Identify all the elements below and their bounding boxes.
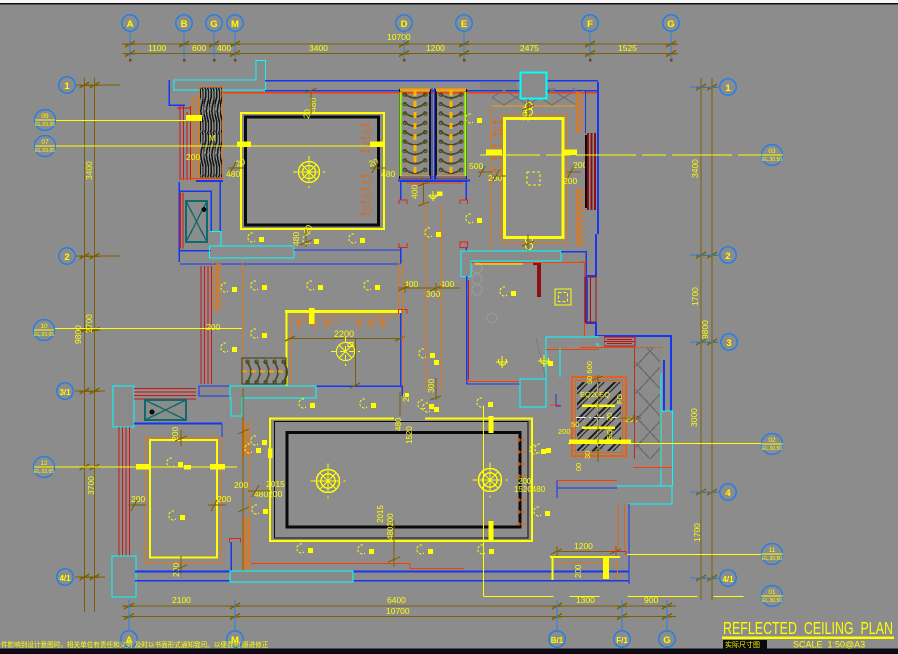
blue sill line (134, 423, 222, 425)
svg-text:EL.30.50: EL.30.50 (762, 157, 782, 163)
access panel hall inner (559, 293, 568, 302)
balcony blue corner (628, 504, 630, 584)
panel1 green edge (400, 92, 402, 176)
bath-balcony orange line (557, 480, 617, 482)
svg-text:1: 1 (64, 81, 70, 92)
svg-text:20: 20 (605, 413, 614, 421)
grid bubble D (396, 15, 412, 31)
right bubble connector 3 (690, 341, 719, 343)
panel1 center dashes (414, 90, 417, 178)
dim stub left living (228, 162, 244, 173)
corridor blue double below panels (400, 177, 467, 181)
dim line left a (84, 78, 86, 612)
access panel hall (555, 289, 571, 305)
row bubble 4/1 right (720, 570, 736, 586)
svg-text:M: M (231, 19, 239, 30)
cabinet orange shelf (556, 564, 618, 581)
leader 09 block (186, 115, 202, 120)
corridor blue line under soffit (180, 263, 401, 265)
svg-text:2: 2 (725, 251, 730, 262)
leader 01 horizontal (484, 596, 762, 598)
leader 07 block2 (370, 142, 384, 148)
dim line right b (711, 78, 713, 600)
dim stub 500 (478, 166, 506, 181)
dim stub right living (370, 162, 386, 173)
svg-text:R/A: R/A (363, 206, 373, 212)
door swing diagonal (536, 338, 546, 380)
hall step red edge (546, 349, 599, 351)
svg-text:50 600: 50 600 (585, 361, 594, 384)
grid bubble G right (663, 15, 679, 31)
red lintel lines (134, 389, 196, 400)
dim 400 vertical corridor (418, 181, 429, 206)
dim line right a (700, 78, 702, 600)
yellow dot foyer (405, 393, 409, 397)
elev bubble 11 (761, 544, 783, 565)
panel1 orange caps (400, 89, 430, 92)
bottom chain line 2 (122, 616, 676, 618)
svg-text:D: D (401, 19, 408, 30)
hall cyan top bar (461, 251, 561, 277)
column cyan box mid-left (113, 386, 134, 427)
bottom chain line 1 (122, 605, 676, 607)
balcony red line (633, 467, 672, 469)
right bubble connector 4 (690, 491, 719, 493)
bottom cyan soffit bar (230, 571, 353, 582)
svg-text:07: 07 (41, 139, 49, 146)
svg-text:2015: 2015 (266, 479, 285, 489)
dining yellow top edge (285, 310, 401, 313)
svg-text:400: 400 (410, 185, 420, 199)
hall red corner (550, 404, 560, 406)
svg-text:G: G (663, 635, 670, 646)
orange verticals hall left (399, 203, 442, 392)
bottom black strip (0, 649, 898, 654)
wall top blue outer line (265, 80, 598, 82)
dim chain line 2 (122, 53, 678, 55)
svg-text:3000: 3000 (689, 408, 699, 427)
elev bubble 12 (34, 457, 55, 478)
window right mid (585, 277, 596, 322)
hall blue step (556, 394, 561, 406)
svg-text:S/A: S/A (375, 318, 384, 324)
pillar blue edge (230, 542, 232, 573)
bed2 200 texts (131, 427, 231, 577)
wall top inner orange line (220, 92, 598, 94)
balcony door frame orange (618, 504, 625, 551)
panel1 frame (400, 90, 430, 178)
dim 1200 balcony (551, 546, 621, 557)
bath-balcony wall blue (557, 480, 617, 498)
window black bar right (585, 135, 587, 208)
dining SA labels (303, 318, 384, 324)
svg-text:2700: 2700 (84, 314, 94, 333)
frame top white line (0, 0, 898, 3)
blue sill step (221, 424, 223, 438)
orange long line corridor (242, 263, 244, 465)
svg-text:E: E (461, 19, 467, 30)
svg-text:1700: 1700 (692, 523, 702, 542)
orange drop line bedroom1 (490, 106, 492, 260)
title underline (722, 637, 894, 640)
row bubble 4 right (720, 484, 736, 500)
hall dim texts 400 300 (404, 185, 454, 393)
bath orange outer rect (572, 377, 626, 456)
grid bubble G (206, 15, 222, 31)
leader 11 (627, 554, 761, 556)
wall top blue inner line (265, 90, 598, 92)
elev bubble 10 (34, 320, 55, 341)
svg-text:实际尺寸图: 实际尺寸图 (725, 640, 760, 649)
cyan soffit top-left (174, 61, 266, 91)
X hatch column border (635, 347, 660, 459)
row bubble 3/1 left (57, 383, 73, 399)
elev bubble 03 (761, 145, 783, 166)
grid bubble B (176, 15, 192, 31)
dining orange inner left (290, 316, 292, 386)
grid bubble F (582, 15, 598, 31)
svg-text:2: 2 (64, 252, 69, 263)
cyan corner notch (595, 344, 598, 347)
svg-text:2100: 2100 (172, 595, 191, 605)
svg-text:S/A: S/A (331, 318, 340, 324)
right bubble connector 2 (690, 254, 719, 256)
svg-text:B: B (181, 19, 188, 30)
svg-text:EQ20EQ: EQ20EQ (580, 390, 610, 399)
hall step cyan inner (559, 349, 561, 377)
grid bubble A (122, 15, 138, 31)
svg-text:R/A: R/A (494, 127, 504, 133)
hall red top line (471, 262, 586, 264)
S coil symbol top (526, 103, 533, 116)
balcony cyan step (617, 486, 672, 504)
svg-text:R/A: R/A (363, 180, 373, 186)
blue line below panels (398, 180, 470, 182)
dining orange inner top (291, 315, 400, 317)
leader 03 block1 (486, 150, 502, 156)
ceiling rect black living (246, 117, 379, 225)
elevator shaft blue outline (179, 182, 220, 262)
svg-text:02: 02 (768, 437, 776, 444)
dim chain line 1 (122, 43, 678, 45)
svg-text:11: 11 (769, 547, 776, 554)
svg-text:G: G (667, 19, 674, 30)
master fan 1 (310, 463, 345, 498)
elevator red doors (180, 193, 183, 249)
window mullions right dark red (588, 133, 595, 210)
svg-text:10700: 10700 (386, 606, 410, 616)
svg-text:200: 200 (206, 322, 220, 332)
elevator door X box (186, 201, 207, 242)
svg-text:200: 200 (574, 564, 583, 578)
dim 480 20 top living (186, 98, 395, 246)
leader 12 (55, 466, 237, 468)
door X box teal (145, 400, 186, 420)
svg-text:REFLECTED CEILING PLAN: REFLECTED CEILING PLAN (723, 618, 893, 638)
bath dim horiz (617, 414, 641, 423)
texts 500 200 bedroom (469, 160, 587, 186)
red studs bottom-left (119, 427, 130, 557)
pillar comb lower (242, 518, 251, 570)
dim tick bedroom bottom (522, 234, 534, 252)
dim stub top living (305, 88, 317, 114)
bottom wall blue second (135, 580, 629, 582)
wall band gray top (170, 82, 598, 92)
pillar comb upper (242, 423, 251, 456)
svg-text:09: 09 (41, 113, 49, 120)
cyan skylight box (521, 73, 547, 99)
bath white centerlines (576, 383, 620, 448)
elevator dot (202, 207, 207, 212)
svg-text:200: 200 (131, 494, 145, 504)
title sub black box (723, 640, 767, 649)
panel2 green edge (465, 92, 467, 176)
leader 01 vertical (483, 406, 485, 596)
wavy panel orange borders (200, 87, 223, 178)
right bubble connector 1 (690, 86, 719, 88)
hall orange bottom line (466, 381, 520, 383)
svg-text:A: A (127, 19, 134, 30)
yellow stub corridor (475, 263, 523, 265)
svg-text:EQ: EQ (605, 429, 614, 440)
frame top black line (0, 3, 898, 5)
svg-text:EL.30.50: EL.30.50 (762, 556, 782, 562)
svg-text:3400: 3400 (309, 43, 328, 53)
master left edge block (268, 449, 273, 459)
bottom bubble F/1 (614, 631, 630, 647)
dim tick bedroom top (522, 99, 534, 117)
svg-text:6400: 6400 (387, 595, 406, 605)
leader 10 (55, 328, 242, 330)
blue inner frame above window (585, 91, 587, 133)
leader 02 (568, 443, 761, 445)
svg-text:2200: 2200 (334, 329, 354, 339)
svg-text:EL.30.50: EL.30.50 (762, 598, 782, 604)
svg-text:4/1: 4/1 (59, 574, 71, 583)
svg-text:F/1: F/1 (616, 636, 628, 645)
elev bubble 01 (761, 586, 783, 607)
cabinet circles (472, 263, 482, 295)
bottom bubble A (121, 631, 137, 647)
leader 01 block2 (489, 521, 494, 541)
svg-text:2475: 2475 (520, 43, 539, 53)
closet X band right of D (492, 88, 575, 106)
svg-text:3/1: 3/1 (59, 388, 71, 397)
svg-text:B/1: B/1 (551, 636, 564, 645)
door bar dark red hall (537, 263, 541, 297)
elevator cyan corner (210, 232, 221, 247)
bath yellow bar 2 (582, 427, 615, 430)
bed2 yellow rect (150, 440, 217, 558)
leader 07 block1 (237, 142, 251, 148)
svg-text:SCALE 1:50@A3: SCALE 1:50@A3 (793, 640, 865, 650)
wavy panel bottom blue (196, 180, 223, 182)
panel2 frame (436, 90, 466, 178)
foyer red studs (201, 266, 212, 384)
left bubble row ticks (75, 84, 120, 86)
bottom wall blue main (135, 571, 629, 573)
cyan soffit below dining (230, 386, 316, 416)
red edge left of xhatch (634, 347, 636, 459)
bath diagonal hatch (577, 382, 621, 451)
hall bottom blue (466, 383, 520, 385)
bath dim vert (592, 375, 603, 462)
blue vert right of xhatch (663, 360, 665, 411)
svg-text:20: 20 (402, 393, 411, 402)
right wall blue upper (597, 82, 599, 234)
elev bubble 07 (35, 136, 56, 157)
red brackets corridor (399, 200, 468, 248)
fan living (293, 156, 325, 188)
cabinet yellow block (603, 558, 609, 579)
S coil symbol bottom (526, 237, 533, 250)
svg-text:FD: FD (615, 393, 624, 404)
arcs frame (242, 358, 286, 384)
svg-text:480: 480 (226, 169, 240, 179)
elevator X (186, 201, 207, 242)
red wall studs left (180, 106, 191, 180)
hall blue left vertical (466, 276, 468, 384)
svg-text:1700: 1700 (690, 287, 700, 306)
row bubble 3 right (721, 334, 737, 350)
panel2 center dashes (450, 90, 453, 178)
horizontal window inner lines (604, 340, 635, 344)
panel1 garland swags (403, 93, 427, 173)
door dot (150, 410, 155, 415)
leader 07 (56, 145, 384, 147)
elev bubble 09 (35, 110, 56, 131)
window right mid inner (590, 277, 592, 322)
bed2 orange rect (145, 438, 222, 563)
svg-text:3400: 3400 (690, 159, 700, 178)
master black rect thin (275, 422, 529, 539)
dining blue right edge (316, 313, 402, 396)
center dim vert line (238, 388, 249, 571)
row bubble 2 right (720, 247, 736, 263)
panel2 orange caps (436, 89, 466, 92)
leader 12 block1 (136, 464, 151, 470)
row bubble 4/1 left (57, 569, 73, 585)
cyan bracket right (661, 373, 673, 486)
arcs orange mid line (242, 371, 286, 373)
corridor blue stubs (401, 181, 467, 264)
cabinet yellow top (550, 556, 620, 558)
svg-text:S/A: S/A (363, 129, 372, 135)
RA arrows bedroom left (492, 120, 501, 172)
dining fan (331, 337, 360, 366)
blue box left of soffit (199, 386, 230, 396)
master texts dims (234, 477, 546, 540)
svg-text:200: 200 (558, 427, 571, 436)
bath yellow bar 1 (582, 405, 615, 408)
corridor red line below panels (406, 182, 463, 184)
svg-text:480: 480 (394, 417, 403, 431)
comb hatch foyer wall (212, 263, 221, 311)
row bubble 2 left (59, 248, 75, 264)
X hatch column right of bath (635, 347, 660, 459)
ceiling rect yellow bedroom1 (505, 119, 564, 238)
corridor bottom red stepped line (251, 564, 464, 569)
horizontal window top of bath (604, 337, 635, 346)
svg-text:600: 600 (192, 43, 206, 53)
window right mid black (586, 279, 588, 320)
dim line left b (94, 78, 96, 612)
svg-text:30: 30 (583, 451, 592, 459)
ticks chain2 (125, 51, 676, 57)
grid stems blue (130, 31, 671, 60)
fixture crosses hall (428, 191, 550, 368)
red wall top ticks (177, 107, 191, 109)
bottom bubble B/1 (549, 631, 565, 647)
circle fixture hall (487, 313, 497, 323)
svg-text:200: 200 (234, 480, 248, 490)
row bubble 1 right (720, 79, 736, 95)
master black rect thick (287, 433, 520, 528)
bath orange inner rect (576, 381, 623, 453)
svg-text:3: 3 (726, 338, 731, 349)
orange edge right of xhatch (660, 411, 662, 470)
svg-text:480: 480 (291, 232, 301, 246)
svg-text:500: 500 (469, 161, 483, 171)
master fan 2 (472, 462, 507, 497)
svg-text:1200: 1200 (426, 43, 445, 53)
svg-text:4/1: 4/1 (722, 575, 734, 584)
svg-text:03: 03 (768, 148, 776, 155)
dim stub bottom living (300, 229, 312, 247)
dim 300 vertical line (430, 378, 441, 400)
svg-text:件影响到设计意图时。相关单位有责任和义务 及时以书面形式通知: 件影响到设计意图时。相关单位有责任和义务 及时以书面形式通知我司。以便我司 跟进… (1, 640, 269, 649)
downlight foyer south (423, 403, 439, 412)
access square bedroom1 (527, 172, 540, 185)
right bubble connector 4/1 (690, 577, 719, 579)
comb hatch right wall upper (575, 91, 584, 133)
pillar red bracket (230, 539, 241, 543)
svg-text:12: 12 (40, 460, 48, 467)
svg-text:1525: 1525 (618, 43, 637, 53)
svg-text:01: 01 (768, 589, 776, 596)
cabinet red bracket (610, 552, 626, 556)
wood grain wavy panel (200, 87, 222, 178)
svg-text:4: 4 (725, 488, 731, 499)
wavy panel bottom red (181, 178, 223, 180)
svg-text:50: 50 (571, 420, 579, 429)
svg-text:300: 300 (426, 379, 436, 393)
hall shaft cyan box (520, 379, 546, 407)
R/A arrows living right (360, 123, 369, 216)
dining dim line (285, 336, 405, 341)
dining dim vertical (350, 339, 360, 389)
leader 12 block2 (210, 464, 225, 470)
svg-text:2015: 2015 (376, 505, 385, 523)
svg-text:EL.30.50: EL.30.50 (762, 446, 782, 452)
panel2 garland swags (439, 93, 463, 173)
ceiling rect yellow living (241, 113, 384, 229)
dining yellow left edge (285, 311, 287, 386)
blue divider between panels (432, 88, 435, 180)
svg-text:00: 00 (574, 463, 583, 471)
svg-text:F: F (587, 19, 593, 30)
red vert at hall left (468, 280, 470, 380)
leader 03 block2 (563, 150, 577, 156)
svg-text:300: 300 (426, 289, 440, 299)
wall left blue corner (169, 80, 185, 105)
hall blue top right segment (561, 252, 586, 322)
grid bubble M (227, 15, 243, 31)
yellow block dining top (309, 308, 315, 324)
orange shelf line under closet (491, 105, 575, 107)
leader 01 block1 (489, 416, 494, 433)
svg-text:3400: 3400 (84, 161, 94, 180)
